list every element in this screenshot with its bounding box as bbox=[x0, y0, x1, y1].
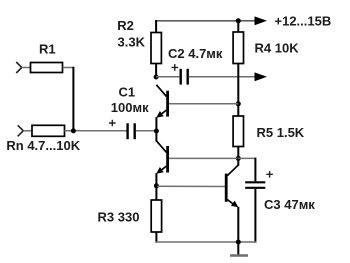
wire: rail down to R2 bbox=[155, 20, 157, 33]
wire: R3 bottom to rail bbox=[155, 232, 157, 243]
wire: node D to C3 bbox=[238, 157, 255, 159]
svg-text:100мк: 100мк bbox=[111, 100, 149, 115]
resistor R4 bbox=[233, 32, 243, 64]
capacitor C3 bbox=[245, 182, 265, 188]
wire: C2 to output arrow bbox=[189, 76, 256, 78]
svg-text:R4 10K: R4 10K bbox=[255, 40, 300, 55]
resistor R5 bbox=[233, 116, 243, 147]
svg-text:R2: R2 bbox=[117, 18, 134, 33]
input terminal 1 (chevron) bbox=[16, 62, 22, 73]
wire: bottom ground rail bbox=[156, 241, 257, 243]
node C: R4 / R5 / Q1 base bbox=[236, 101, 241, 106]
svg-text:+12...15В: +12...15В bbox=[275, 13, 332, 28]
wire: node B to C2 bbox=[156, 76, 179, 78]
wire: R5 bottom to node D bbox=[237, 147, 239, 160]
transistor Q2 bbox=[156, 141, 167, 174]
capacitor C1 bbox=[128, 123, 135, 139]
input terminal 2 (chevron) bbox=[18, 125, 24, 136]
svg-text:R3 330: R3 330 bbox=[98, 210, 140, 225]
wire: stub to ground symbol bbox=[237, 242, 239, 255]
node B: R2 / Q1 collector / C2 bbox=[154, 75, 159, 80]
wire: down to C3 top plate bbox=[254, 158, 256, 182]
wire: node E to Q3 base bbox=[156, 185, 225, 187]
capacitor C2 plus sign bbox=[172, 64, 179, 71]
wire: R1 right to corner bbox=[63, 67, 74, 69]
wire: R4 bottom to node C bbox=[237, 64, 239, 117]
resistor R1 bbox=[31, 63, 63, 73]
transistor Q1 bbox=[156, 85, 167, 118]
wire: rail to R4 bbox=[237, 20, 239, 33]
wire: Rn to C1 (through node) bbox=[65, 130, 127, 132]
wire: Q1 base to node C bbox=[169, 103, 238, 105]
wire: terminal 2 to Rn bbox=[23, 130, 32, 132]
svg-text:Rn 4.7...10K: Rn 4.7...10K bbox=[6, 138, 80, 153]
wire: Q1 emitter down to node A bbox=[155, 117, 157, 131]
wire: top supply rail bbox=[155, 20, 256, 22]
capacitor C3 plus sign bbox=[266, 171, 273, 178]
wire: terminal 1 to R1 bbox=[22, 67, 31, 69]
node D: R5 / Q2 base / Q3 collector / C3 bbox=[236, 156, 241, 161]
wire: R2 bottom to node B bbox=[155, 64, 157, 79]
ground bbox=[230, 254, 248, 256]
resistor R3 bbox=[151, 200, 161, 232]
svg-text:R5 1.5K: R5 1.5K bbox=[257, 125, 305, 140]
resistor Rn bbox=[32, 125, 65, 136]
svg-text:C2 4.7мк: C2 4.7мк bbox=[168, 46, 223, 61]
wire: Q2 base to node D bbox=[169, 157, 238, 159]
wire: node D down to Q3 collector bbox=[237, 158, 239, 165]
capacitor C2 bbox=[181, 69, 188, 85]
wire: vertical R1 to input node bbox=[72, 67, 74, 131]
resistor R2 bbox=[151, 33, 161, 64]
svg-text:C1: C1 bbox=[119, 85, 136, 100]
node: emitter / rail junction bbox=[236, 240, 241, 245]
node: rail / R4 junction bbox=[236, 18, 241, 23]
node E: Q2 emitter / R3 / Q3 base bbox=[154, 183, 159, 188]
wire: node E to R3 bbox=[155, 186, 157, 200]
arrow: output bbox=[255, 72, 268, 81]
node A: C1 / Q1 emitter / Q2 collector bbox=[154, 129, 159, 134]
wire: C3 bottom plate to rail bbox=[254, 189, 256, 243]
svg-text:3.3K: 3.3K bbox=[118, 34, 146, 49]
wire: Q2 emitter down to node E bbox=[155, 173, 157, 186]
transistor Q3 bbox=[226, 165, 238, 207]
arrow: +12V supply bbox=[255, 16, 268, 25]
wire: Q3 emitter down to ground rail bbox=[237, 207, 239, 243]
capacitor C1 plus sign bbox=[109, 120, 116, 127]
node: R1/Rn junction bbox=[71, 128, 76, 133]
svg-text:C3 47мк: C3 47мк bbox=[264, 197, 315, 212]
svg-text:R1: R1 bbox=[39, 42, 56, 57]
wire: C1 to node A bbox=[136, 130, 157, 132]
wire: Q2 collector stub from node A bbox=[155, 131, 157, 142]
